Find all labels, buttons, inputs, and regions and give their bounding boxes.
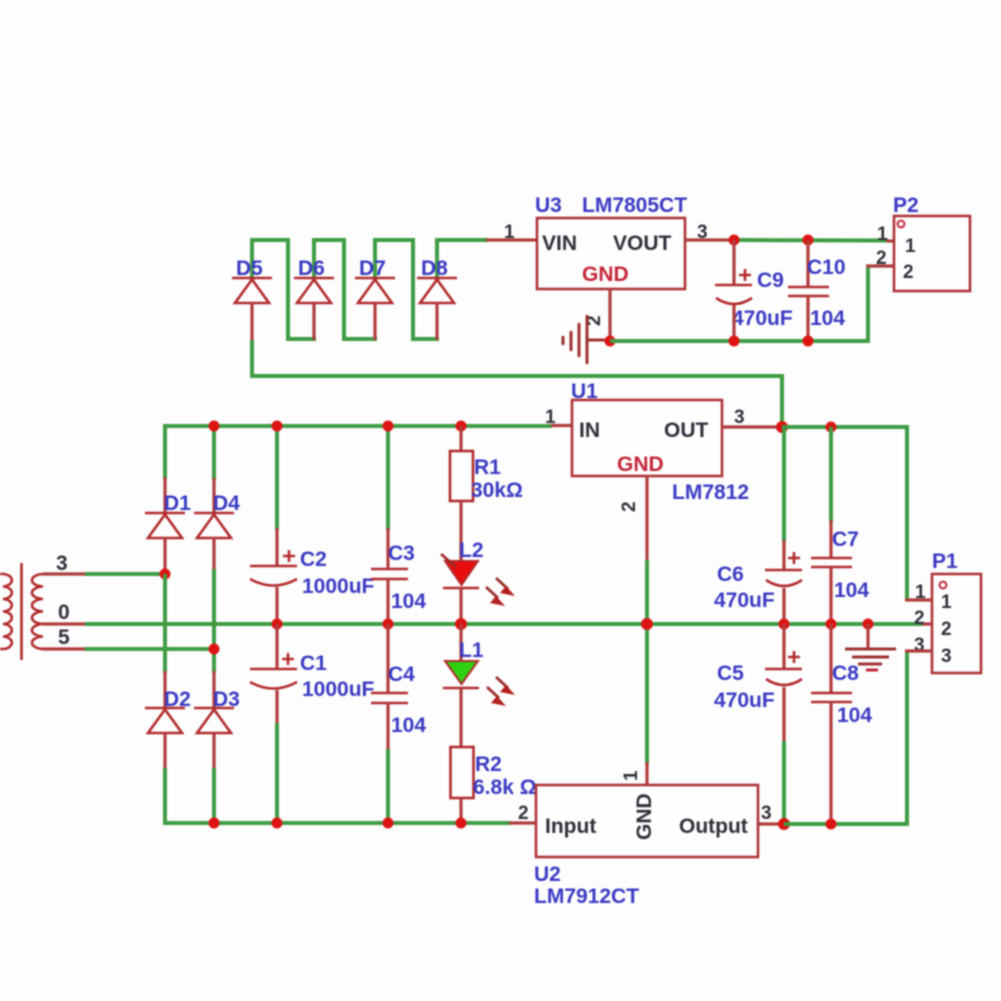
wire D4 top lead red: [212, 478, 215, 514]
svg-text:104: 104: [391, 714, 426, 737]
wire C10 top lead: [806, 240, 809, 288]
diode D8: [417, 278, 457, 303]
wire D1 top lead: [163, 477, 166, 514]
svg-text:C2: C2: [300, 548, 327, 571]
diode D1: [145, 513, 185, 538]
transformer T1 primary winding: [0, 574, 12, 649]
wire tap3 green to D1 column: [85, 572, 167, 576]
wire C2 top lead red: [275, 528, 278, 566]
svg-text:1000uF: 1000uF: [302, 575, 375, 598]
L1 light arrows: [487, 677, 515, 706]
wire top bus +rail: [165, 426, 552, 479]
wire C1 bottom lead red: [275, 690, 278, 725]
wire L2 to center bus: [459, 588, 462, 626]
svg-text:104: 104: [391, 590, 426, 613]
op-amp U2 regulator box: [536, 785, 758, 857]
wire C5 top lead: [782, 624, 785, 669]
wire D6 cathode loop to D7 anode: [314, 240, 377, 339]
junction C10 bottom: [803, 336, 814, 347]
wire 12V rail right: [782, 427, 907, 601]
transformer T1 core: [20, 563, 23, 660]
wire tap3 red stub: [43, 572, 86, 575]
svg-text:VOUT: VOUT: [613, 232, 672, 255]
capacitor C7: [811, 558, 852, 567]
junction bottom C1: [272, 818, 283, 829]
svg-text:3: 3: [761, 803, 772, 824]
wire U3 pin3 red: [685, 238, 734, 241]
svg-text:2: 2: [941, 619, 952, 640]
capacitor C10: [788, 287, 829, 296]
svg-text:U1: U1: [571, 380, 598, 403]
svg-text:Input: Input: [545, 815, 596, 838]
wire D8 anode stub: [435, 303, 438, 340]
svg-text:D5: D5: [236, 257, 263, 280]
wire C10 bottom lead: [806, 296, 809, 342]
wire C1 bottom lead green: [275, 723, 279, 823]
svg-text:C5: C5: [717, 662, 744, 685]
svg-text:P2: P2: [893, 194, 919, 217]
svg-text:0: 0: [58, 601, 70, 624]
junction center bus C7: [826, 619, 837, 630]
wire C7 top lead red: [829, 520, 832, 558]
junction tap5: [209, 644, 220, 655]
svg-text:2: 2: [619, 501, 640, 512]
wire center bus to L1: [459, 624, 462, 662]
svg-text:LM7812: LM7812: [672, 481, 749, 504]
diode D4: [194, 513, 234, 538]
capacitor C9: [715, 269, 752, 304]
junction bottom rail C8: [826, 819, 837, 830]
svg-text:C10: C10: [807, 256, 846, 279]
wire gnd stub: [866, 624, 869, 649]
junction bottom D3: [209, 818, 220, 829]
wire U1 pin2 down red: [645, 476, 648, 562]
wire P2 pin1 red stub: [886, 239, 895, 242]
junction 12V rail C7: [826, 422, 837, 433]
svg-text:GND: GND: [582, 263, 629, 286]
wire center bus 0V: [85, 622, 924, 626]
capacitor C1: [250, 653, 297, 689]
wire D3 anode lead: [212, 733, 215, 770]
junction tap3: [160, 569, 171, 580]
wire tap5 green to D3 column: [85, 647, 216, 651]
svg-text:1: 1: [905, 236, 916, 257]
junction bottom rail U2 out: [778, 818, 790, 830]
svg-text:GND: GND: [633, 793, 656, 840]
resistor R1: [450, 451, 473, 501]
junction bottom R2: [456, 818, 467, 829]
wire D7 anode stub: [373, 303, 376, 340]
junction center bus gnd: [863, 619, 874, 630]
junction top bus C2: [272, 421, 283, 432]
svg-text:L1: L1: [459, 639, 484, 662]
svg-text:3: 3: [941, 646, 952, 667]
wire tap3 down green: [163, 574, 167, 673]
wire C7 top lead green: [829, 427, 833, 522]
ground symbol mid: [845, 649, 896, 664]
svg-text:1: 1: [545, 407, 556, 428]
svg-text:104: 104: [834, 579, 869, 602]
svg-text:L2: L2: [459, 539, 484, 562]
wire U2 pin2 stub: [509, 821, 537, 824]
svg-text:U2: U2: [534, 863, 561, 886]
transformer T1 secondary winding: [32, 574, 43, 649]
svg-text:U3: U3: [535, 194, 562, 217]
wire U1 pin1 stub: [551, 424, 573, 427]
wire C2 top lead green: [275, 424, 279, 530]
diode D3: [194, 708, 234, 733]
svg-text:1000uF: 1000uF: [302, 678, 375, 701]
junction center bus C2: [272, 619, 283, 630]
junction C9 top: [729, 235, 740, 246]
wire U2 pin1 red stub: [645, 762, 648, 786]
wire C5 bottom lead red: [782, 687, 785, 743]
diode D6: [294, 278, 334, 303]
wire D3 top lead: [212, 671, 215, 709]
wire C9 top lead: [732, 240, 735, 286]
wire C6 top lead green: [782, 427, 786, 542]
diode D5: [232, 278, 272, 303]
P1 key circle: [940, 582, 947, 589]
svg-text:2: 2: [914, 608, 925, 629]
svg-text:3: 3: [734, 407, 745, 428]
junction C9 bottom: [729, 336, 740, 347]
wire C8 top lead: [829, 624, 832, 693]
wire C3 top lead green: [386, 424, 390, 530]
wire bottom rail right: [784, 650, 907, 824]
capacitor C5: [765, 651, 802, 685]
wire C1 top lead: [275, 624, 278, 669]
wire D7 cathode loop to D8 anode: [375, 240, 439, 339]
capacitor C6: [765, 552, 802, 586]
svg-text:30kΩ: 30kΩ: [471, 479, 523, 502]
svg-text:3: 3: [914, 635, 925, 656]
wire C5 bottom lead green: [782, 741, 786, 824]
svg-text:470uF: 470uF: [732, 307, 793, 330]
junction center bus C3: [383, 619, 394, 630]
wire 5V out green: [732, 238, 888, 243]
svg-text:VIN: VIN: [542, 232, 577, 255]
svg-text:C8: C8: [832, 662, 859, 685]
wire C4 top lead: [386, 624, 389, 693]
wire P1 pin3 red stub: [905, 649, 933, 652]
wire U3 pin1 red stub: [486, 238, 538, 241]
C8 minus mark: [866, 669, 878, 672]
LED L1 green: [443, 661, 479, 688]
P2 key circle: [898, 221, 905, 228]
svg-text:C4: C4: [388, 663, 415, 686]
svg-text:470uF: 470uF: [714, 589, 775, 612]
svg-text:2: 2: [876, 248, 887, 269]
junction U3 pin2 rail: [605, 336, 616, 347]
svg-text:D1: D1: [164, 492, 191, 515]
svg-text:C1: C1: [300, 652, 327, 675]
wire C8 bottom lead: [829, 702, 832, 824]
svg-text:104: 104: [837, 704, 872, 727]
LED L2 red: [443, 561, 479, 588]
wire U3 pin2 down: [608, 289, 611, 342]
svg-text:C3: C3: [388, 542, 415, 565]
svg-text:1: 1: [915, 582, 926, 603]
wire R1 to L2: [459, 501, 462, 562]
svg-text:R2: R2: [475, 753, 502, 776]
wire bottom-left rail: [165, 768, 511, 823]
wire D1 anode to tap3: [163, 538, 166, 575]
svg-text:5: 5: [58, 626, 70, 649]
junction center bus pin2: [641, 618, 653, 630]
svg-text:D4: D4: [213, 492, 240, 515]
wire rectified feed to 12V rail: [252, 340, 782, 429]
svg-text:C7: C7: [832, 528, 859, 551]
op-amp U1 regulator box: [572, 400, 722, 476]
wire center bus stub into P1 pin2: [922, 622, 933, 625]
connector P2: [894, 216, 970, 291]
wire U1 pin2 to U2 pin1 green: [645, 560, 649, 764]
wire C3 bottom lead: [386, 579, 389, 626]
connector P1: [932, 574, 981, 673]
svg-text:3: 3: [697, 222, 708, 243]
svg-text:3: 3: [56, 552, 68, 575]
wire D8 cathode to U3 VIN green: [437, 240, 488, 280]
wire R1 top lead: [459, 426, 462, 452]
wire D2 anode lead: [163, 733, 166, 770]
wire D4 anode lead: [212, 538, 215, 571]
svg-text:1: 1: [877, 224, 888, 245]
svg-text:D2: D2: [164, 688, 191, 711]
junction top bus R1: [456, 421, 467, 432]
junction top bus C3: [383, 421, 394, 432]
L2 light arrows: [441, 554, 515, 606]
junction center bus C6: [779, 619, 790, 630]
junction center bus LED: [455, 618, 467, 630]
svg-text:1: 1: [504, 222, 515, 243]
wire C7 bottom lead: [829, 567, 832, 626]
svg-text:104: 104: [810, 307, 845, 330]
svg-text:6.8k Ω: 6.8k Ω: [473, 776, 537, 799]
wire D4 to tap5 green: [212, 569, 216, 673]
svg-text:LM7912CT: LM7912CT: [534, 885, 639, 908]
wire 5V ground rail: [610, 266, 868, 341]
junction bottom C4: [383, 818, 394, 829]
junction C10 top: [803, 235, 814, 246]
wire C6 bottom lead: [782, 588, 785, 626]
svg-text:IN: IN: [579, 419, 600, 442]
svg-text:2: 2: [903, 262, 914, 283]
svg-text:C9: C9: [757, 269, 784, 292]
wire D3 to bottom rail green: [212, 768, 216, 823]
wire C3 top lead red: [386, 528, 389, 570]
capacitor C2: [250, 550, 297, 586]
wire C2 bottom lead: [275, 587, 278, 626]
wire D5 anode down: [250, 303, 253, 342]
junction top bus D4: [209, 421, 220, 432]
wire C4 bottom lead red: [386, 703, 389, 751]
resistor R2: [451, 747, 474, 798]
wire D5 cathode loop to D6 anode: [252, 240, 316, 339]
svg-text:D3: D3: [213, 688, 240, 711]
wire tap5 red stub: [43, 647, 86, 650]
svg-text:1: 1: [621, 770, 642, 781]
svg-text:C6: C6: [717, 563, 744, 586]
wire P1 pin1 red stub: [905, 598, 933, 601]
capacitor C3: [371, 569, 408, 579]
wire C4 bottom lead green: [386, 749, 390, 823]
wire tap0 red stub: [43, 622, 86, 625]
svg-text:D8: D8: [421, 257, 448, 280]
diode D2: [145, 708, 185, 733]
svg-text:OUT: OUT: [664, 419, 709, 442]
wire D4 top lead green: [212, 424, 216, 480]
svg-text:2: 2: [518, 803, 529, 824]
wire D2 top lead: [163, 671, 166, 709]
svg-text:LM7805CT: LM7805CT: [582, 194, 687, 217]
svg-text:R1: R1: [474, 456, 501, 479]
op-amp U3 regulator box: [537, 218, 685, 289]
svg-text:D7: D7: [359, 257, 386, 280]
svg-text:D6: D6: [298, 257, 325, 280]
wire U2 pin3 red: [758, 822, 786, 825]
svg-text:Output: Output: [679, 815, 748, 838]
wire U1 pin3 red: [722, 425, 784, 428]
ground symbol U3: [563, 315, 608, 364]
svg-text:GND: GND: [617, 453, 664, 476]
wire P2 pin2 red stub: [866, 264, 895, 267]
wire L1 to R2: [459, 688, 462, 748]
wire C6 top lead red: [782, 540, 785, 570]
capacitor C4: [371, 693, 408, 703]
junction 12V rail: [776, 421, 788, 433]
wire C9 bottom lead: [732, 305, 735, 342]
diode D7: [355, 278, 395, 303]
svg-text:1: 1: [941, 592, 952, 613]
svg-text:P1: P1: [932, 550, 958, 573]
wire R2 to bottom rail: [459, 798, 462, 823]
svg-text:470uF: 470uF: [714, 689, 775, 712]
wire D6 anode stub: [312, 303, 315, 340]
capacitor C8: [811, 693, 852, 702]
